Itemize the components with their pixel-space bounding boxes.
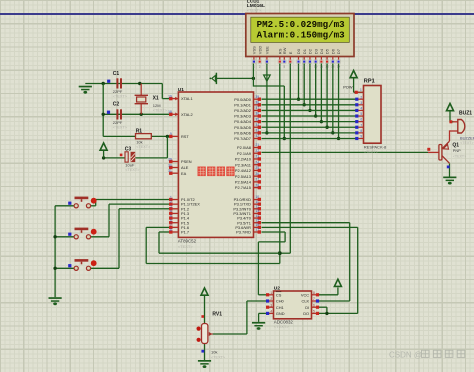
svg-text:8: 8 <box>303 65 305 69</box>
svg-text:4: 4 <box>360 107 362 111</box>
svg-text:7: 7 <box>298 65 300 69</box>
svg-text:D1: D1 <box>302 48 307 54</box>
svg-text:<TEXT>: <TEXT> <box>364 150 379 154</box>
svg-text:P0.0/AD0: P0.0/AD0 <box>234 97 251 102</box>
svg-text:29: 29 <box>168 157 172 161</box>
svg-text:PSEN: PSEN <box>181 159 192 164</box>
svg-text:39: 39 <box>255 95 259 99</box>
svg-text:9: 9 <box>170 132 172 136</box>
svg-text:5: 5 <box>170 214 172 218</box>
svg-text:24: 24 <box>255 160 259 164</box>
svg-text:P2.7/A15: P2.7/A15 <box>235 185 251 190</box>
svg-text:13: 13 <box>255 209 259 213</box>
svg-text:<TEXT>: <TEXT> <box>460 141 473 145</box>
svg-text:CH0: CH0 <box>276 299 285 304</box>
svg-text:P2.5/A13: P2.5/A13 <box>235 174 251 179</box>
svg-text:P2.0/A8: P2.0/A8 <box>237 145 251 150</box>
svg-text:P2.6/A14: P2.6/A14 <box>235 179 252 184</box>
svg-text:RP1: RP1 <box>364 79 375 85</box>
svg-text:D0: D0 <box>296 48 301 54</box>
svg-text:30: 30 <box>168 163 172 167</box>
svg-text:GND: GND <box>276 311 285 316</box>
svg-text:1: 1 <box>270 291 272 295</box>
svg-text:4: 4 <box>170 209 172 213</box>
svg-text:26: 26 <box>255 172 259 176</box>
svg-text:28: 28 <box>255 183 259 187</box>
svg-text:34: 34 <box>255 123 259 127</box>
svg-text:12: 12 <box>255 204 259 208</box>
svg-text:<TEXT>: <TEXT> <box>178 244 194 249</box>
svg-text:CLK: CLK <box>302 299 310 304</box>
svg-text:4: 4 <box>279 65 281 69</box>
svg-text:CH1: CH1 <box>276 305 284 310</box>
svg-text:13: 13 <box>331 65 335 69</box>
svg-text:10k: 10k <box>211 350 217 355</box>
svg-text:10k: 10k <box>136 139 142 144</box>
svg-text:Q1: Q1 <box>452 142 459 148</box>
svg-text:19: 19 <box>168 94 172 98</box>
svg-text:P0.5/AD5: P0.5/AD5 <box>234 125 251 130</box>
svg-text:5: 5 <box>283 65 285 69</box>
svg-text:D5: D5 <box>325 48 330 54</box>
svg-text:12: 12 <box>325 65 329 69</box>
svg-text:36: 36 <box>255 112 259 116</box>
svg-text:3: 3 <box>170 205 172 209</box>
svg-text:C1: C1 <box>113 71 120 77</box>
svg-text:23: 23 <box>255 155 259 159</box>
svg-text:DO: DO <box>303 311 309 316</box>
svg-text:D4: D4 <box>319 48 324 54</box>
svg-text:27: 27 <box>255 178 259 182</box>
svg-text:7: 7 <box>313 297 315 301</box>
svg-text:25: 25 <box>255 166 259 170</box>
svg-text:2: 2 <box>360 95 362 99</box>
svg-text:6: 6 <box>313 303 315 307</box>
svg-text:3: 3 <box>266 65 268 69</box>
svg-text:<TEXT>: <TEXT> <box>211 355 226 359</box>
svg-text:<TEXT>: <TEXT> <box>153 109 168 113</box>
svg-text:D3: D3 <box>313 48 318 54</box>
svg-text:22: 22 <box>255 149 259 153</box>
svg-text:RV1: RV1 <box>212 311 222 317</box>
svg-text:8: 8 <box>170 228 172 232</box>
svg-text:VDD: VDD <box>257 46 262 55</box>
svg-text:11: 11 <box>320 65 323 69</box>
svg-text:9: 9 <box>309 65 311 69</box>
svg-text:Alarm:0.150mg/m3: Alarm:0.150mg/m3 <box>257 30 345 41</box>
svg-text:<TEXT>: <TEXT> <box>274 324 290 329</box>
svg-text:5: 5 <box>360 112 362 116</box>
svg-text:31: 31 <box>168 169 172 173</box>
svg-text:P2.1/A9: P2.1/A9 <box>237 151 251 156</box>
svg-text:P2.2/A10: P2.2/A10 <box>235 157 252 162</box>
svg-text:32: 32 <box>255 134 259 138</box>
svg-text:C2: C2 <box>113 101 120 107</box>
svg-text:P2.4/A12: P2.4/A12 <box>235 168 251 173</box>
svg-text:14: 14 <box>337 65 341 69</box>
svg-text:P0.1/AD1: P0.1/AD1 <box>234 102 251 107</box>
svg-text:EA: EA <box>181 171 187 176</box>
svg-text:10: 10 <box>255 195 259 199</box>
svg-text:P0.4/AD4: P0.4/AD4 <box>234 119 251 124</box>
svg-text:VSS: VSS <box>252 46 257 54</box>
svg-text:P0.6/AD6: P0.6/AD6 <box>234 130 251 135</box>
svg-text:9: 9 <box>360 135 362 139</box>
svg-text:VEE: VEE <box>265 46 270 54</box>
svg-text:5: 5 <box>313 310 315 314</box>
svg-text:2: 2 <box>259 65 261 69</box>
svg-text:14: 14 <box>255 214 259 218</box>
svg-text:22PF: 22PF <box>113 120 123 125</box>
svg-text:16: 16 <box>255 223 259 227</box>
svg-text:P0.2/AD2: P0.2/AD2 <box>234 108 251 113</box>
svg-text:<TEXT>: <TEXT> <box>113 94 128 98</box>
svg-text:38: 38 <box>255 101 259 105</box>
svg-text:2: 2 <box>270 297 272 301</box>
svg-text:POW: POW <box>343 85 353 90</box>
svg-text:U1: U1 <box>178 87 184 93</box>
svg-text:X1: X1 <box>153 96 159 102</box>
svg-text:P0.3/AD3: P0.3/AD3 <box>234 114 251 119</box>
svg-text:1: 1 <box>253 65 255 69</box>
svg-text:<TEXT>: <TEXT> <box>247 8 262 13</box>
svg-text:2: 2 <box>170 200 172 204</box>
svg-text:<TEXT>: <TEXT> <box>453 155 466 159</box>
svg-text:P2.3/A11: P2.3/A11 <box>235 162 251 167</box>
svg-text:1: 1 <box>360 88 362 92</box>
svg-text:E: E <box>288 51 293 54</box>
svg-text:6: 6 <box>289 65 291 69</box>
svg-text:37: 37 <box>255 106 259 110</box>
svg-text:R1: R1 <box>136 128 143 134</box>
svg-text:RESPACK-8: RESPACK-8 <box>364 144 387 149</box>
svg-text:35: 35 <box>255 117 259 121</box>
svg-text:XTAL2: XTAL2 <box>181 112 193 117</box>
svg-text:D6: D6 <box>330 48 335 54</box>
svg-text:17: 17 <box>255 228 259 232</box>
svg-text:<TEXT>: <TEXT> <box>125 168 140 172</box>
svg-text:10: 10 <box>314 65 318 69</box>
svg-text:8: 8 <box>313 291 315 295</box>
svg-text:D7: D7 <box>336 48 341 54</box>
svg-text:U2: U2 <box>274 285 280 291</box>
svg-text:4: 4 <box>270 310 272 314</box>
svg-text:8: 8 <box>360 129 362 133</box>
svg-text:6: 6 <box>170 219 172 223</box>
svg-text:15: 15 <box>255 218 259 222</box>
svg-text:BUZZER: BUZZER <box>460 135 474 140</box>
svg-text:RW: RW <box>282 47 287 54</box>
svg-text:DI: DI <box>305 305 309 310</box>
svg-text:1: 1 <box>170 195 172 199</box>
svg-text:6: 6 <box>360 118 362 122</box>
svg-text:P3.7/RD: P3.7/RD <box>236 230 251 235</box>
svg-text:33: 33 <box>255 129 259 133</box>
svg-text:VCC: VCC <box>301 292 309 297</box>
svg-text:18: 18 <box>168 110 172 114</box>
svg-text:7: 7 <box>360 123 362 127</box>
svg-text:CS: CS <box>276 292 282 297</box>
svg-text:ALE: ALE <box>181 165 189 170</box>
svg-text:P0.7/AD7: P0.7/AD7 <box>234 136 251 141</box>
svg-text:PNP: PNP <box>453 149 461 153</box>
svg-text:<TEXT>: <TEXT> <box>136 145 151 149</box>
svg-text:RST: RST <box>181 134 189 139</box>
svg-text:3: 3 <box>360 101 362 105</box>
svg-text:3: 3 <box>270 303 272 307</box>
svg-text:7: 7 <box>170 223 172 227</box>
svg-text:12M: 12M <box>153 103 161 108</box>
svg-text:11: 11 <box>255 200 259 204</box>
svg-text:CSDN @: CSDN @ <box>389 350 422 359</box>
svg-text:10uF: 10uF <box>125 162 135 167</box>
svg-text:C3: C3 <box>125 147 132 153</box>
svg-text:D2: D2 <box>308 48 313 54</box>
svg-text:P1.7: P1.7 <box>181 230 189 235</box>
svg-text:BUZ1: BUZ1 <box>459 111 472 117</box>
svg-text:<TEXT>: <TEXT> <box>113 125 128 129</box>
svg-text:21: 21 <box>255 143 259 147</box>
svg-text:XTAL1: XTAL1 <box>181 96 193 101</box>
